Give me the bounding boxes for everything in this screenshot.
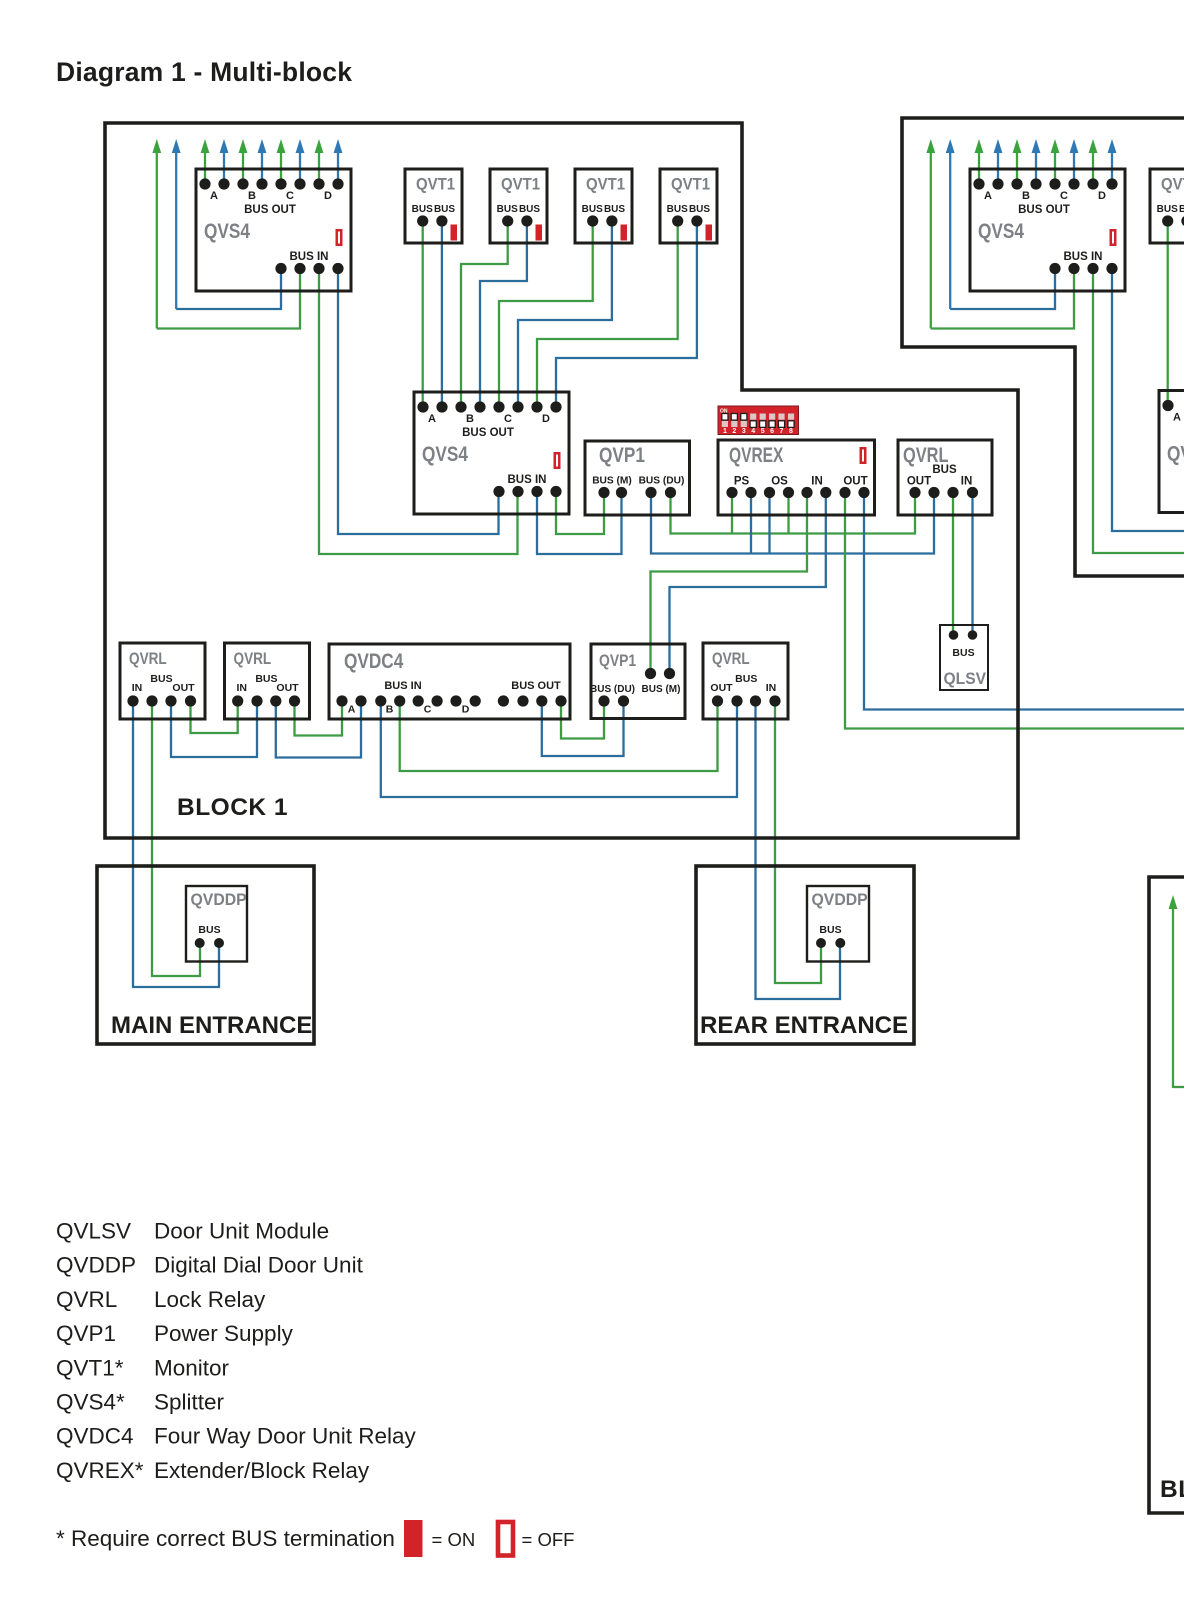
monitor QVT1 block2 #1 (partial): [1150, 169, 1184, 243]
QVRL block1 #1 pins: [127, 695, 196, 706]
QVS4 block2 top BUS IN pins: [1049, 263, 1117, 274]
svg-text:BUS (M): BUS (M): [642, 684, 681, 695]
svg-text:QVS4: QVS4: [978, 221, 1024, 244]
wire QVS4 mid BUS IN 4 to QVP1 BUS(M)1: [556, 493, 604, 535]
QVRL right pins OUT BUS IN: [909, 487, 978, 498]
riser arrow above QVS4 block1-top pin 7: [315, 139, 324, 184]
svg-text:QVP1: QVP1: [599, 652, 636, 671]
svg-text:BUS: BUS: [667, 204, 688, 215]
svg-text:IN: IN: [766, 682, 777, 694]
QVS4 block1 mid termination OFF: [555, 453, 560, 468]
wire QVREX OUT1 to block2 (exits right): [845, 493, 1184, 729]
wire QVT1#4 BUS1 to QVS4 mid D1: [537, 221, 678, 407]
lock relay QVRL block1 #1: [120, 643, 205, 719]
svg-text:B: B: [466, 413, 474, 425]
door unit QVDDP rear entrance: [807, 886, 869, 962]
wire QVS4 block1-top BUS IN 1 to blue riser: [176, 269, 281, 310]
riser arrow above QVS4 block2-top pin 1: [975, 139, 984, 184]
MAIN ENTRANCE box: [97, 866, 314, 1044]
QVS4 block1 top BUS IN pins: [275, 263, 343, 274]
wire QVRL#2 OUT to QVDC4 A1 green: [295, 701, 343, 736]
svg-text:QVS4: QVS4: [422, 444, 468, 467]
QLSV BUS pins: [949, 630, 978, 640]
svg-text:4: 4: [751, 428, 755, 435]
wire QVT1#3 BUS2 to QVS4 mid C2: [518, 221, 612, 407]
svg-text:BUS: BUS: [689, 204, 710, 215]
svg-text:D: D: [324, 190, 332, 202]
svg-text:BUS (M): BUS (M): [592, 476, 632, 487]
svg-text:BLOCK 1: BLOCK 1: [177, 794, 288, 821]
svg-text:BUS: BUS: [150, 673, 172, 685]
wire QVRL#2 BUS to QVDC4 A2 blue: [276, 701, 361, 758]
QVS4 block1 top termination OFF: [337, 230, 342, 245]
wire QVDC4 BUS OUT 3 to QVP1 BUS(DU)2 blue: [542, 701, 624, 756]
svg-text:A: A: [1173, 412, 1181, 424]
riser arrow above QVS4 block1-top pin 5: [277, 139, 286, 184]
wire QVT1#4 BUS2 to QVS4 mid D2: [556, 221, 697, 407]
wire QVT1#1 BUS2 to QVS4 mid A2: [441, 221, 443, 407]
riser arrow above QVS4 block2-top pin 4: [1032, 139, 1041, 184]
svg-text:BUS: BUS: [735, 673, 757, 685]
lock relay QVRL block1 #3: [703, 643, 788, 719]
svg-text:B: B: [1022, 190, 1030, 202]
svg-text:C: C: [424, 704, 432, 716]
QVREX pins PS OS IN OUT: [726, 487, 869, 498]
svg-text:OUT: OUT: [907, 476, 931, 488]
svg-text:IN: IN: [132, 682, 143, 694]
svg-text:BUS OUT: BUS OUT: [511, 680, 561, 692]
lock relay QVRL block1 #2: [225, 643, 310, 719]
svg-text:BUS IN: BUS IN: [1064, 251, 1103, 263]
wire QVRL right IN to QLSV pin2: [971, 493, 973, 636]
svg-text:5: 5: [761, 428, 765, 435]
wire QVREX IN2 to QVP1 bottom BUS(M)2: [670, 493, 826, 674]
svg-text:BUS (DU): BUS (DU): [639, 476, 685, 487]
wire QVS4 block2-top BUS IN 4 exits right: [1112, 269, 1184, 532]
monitor QVT1 block1 #1: [405, 169, 462, 243]
wire QVRL#1 to MAIN ENTRANCE QVDDP blue: [133, 701, 219, 987]
svg-text:Four Way Door Unit Relay: Four Way Door Unit Relay: [154, 1424, 416, 1449]
svg-text:BUS (DU): BUS (DU): [590, 684, 635, 695]
QVT1 block1 #1 BUS pins: [417, 215, 447, 226]
svg-text:QVT1: QVT1: [671, 176, 710, 194]
QVP1 bottom BUS(DU) pins: [598, 695, 629, 706]
svg-text:BUS: BUS: [604, 204, 625, 215]
QVS4 block2 top termination OFF: [1111, 230, 1116, 245]
wire QVS4 block1-top BUS IN 4 to QVS4 mid BUS IN 1: [338, 269, 499, 535]
svg-text:A: A: [984, 190, 992, 202]
legend ON symbol: [404, 1520, 423, 1557]
green bus wire QVP1 BUS(DU)2 - QVREX PS1/OS2 - QVRL OUT1: [671, 493, 916, 534]
svg-text:QVDDP: QVDDP: [812, 891, 868, 910]
svg-text:QVRL: QVRL: [712, 650, 750, 669]
QVREX termination OFF: [861, 448, 866, 463]
riser arrow above QVS4 block2-top pin 7: [1089, 139, 1098, 184]
svg-text:MAIN ENTRANCE: MAIN ENTRANCE: [111, 1012, 312, 1039]
door unit QVDDP main entrance: [186, 886, 247, 962]
svg-text:= OFF: = OFF: [522, 1529, 575, 1550]
svg-text:QVLSV: QVLSV: [56, 1219, 131, 1244]
extender/block relay QVREX block1: [718, 440, 875, 515]
power supply QVP1 block1 top: [585, 441, 690, 515]
BLOCK (bottom right, partial) outline: [1149, 877, 1184, 1513]
svg-text:QLSV: QLSV: [944, 669, 987, 688]
QVT1 block1 #1 termination ON: [451, 225, 458, 241]
riser arrow above QVS4 block1-top pin 3: [239, 139, 248, 184]
tall riser arrow green block2 left: [926, 139, 935, 329]
riser arrow above QVS4 block2-top pin 2: [994, 139, 1003, 184]
svg-text:C: C: [1060, 190, 1068, 202]
svg-text:6: 6: [770, 428, 774, 435]
svg-text:Splitter: Splitter: [154, 1390, 225, 1415]
svg-text:D: D: [542, 413, 550, 425]
wire QVS4 mid BUS IN 3 to QVP1 BUS(M)2: [537, 493, 622, 555]
QVT1 block1 #2 termination ON: [536, 225, 543, 241]
svg-text:* Require correct BUS terminat: * Require correct BUS termination: [56, 1526, 395, 1551]
QVREX DIP switch block: [718, 406, 799, 435]
blue bus wire QVP1 BUS(DU)1 - QVREX PS2/OS1 - QVRL BUS2: [651, 493, 934, 554]
svg-text:Digital Dial Door Unit: Digital Dial Door Unit: [154, 1253, 364, 1278]
svg-text:BUS: BUS: [255, 673, 277, 685]
QVDDP rear BUS pins: [816, 938, 845, 948]
svg-text:QVS4: QVS4: [1167, 443, 1184, 466]
svg-text:OS: OS: [771, 476, 788, 488]
wire QVDC4 BUS OUT 4 to QVP1 BUS(DU)1 green: [561, 701, 604, 739]
monitor QVT1 block1 #4: [660, 169, 717, 243]
svg-text:B: B: [248, 190, 256, 202]
wire QVT1 block2 BUS1 to QVS4 block2-mid A1: [1167, 221, 1169, 406]
svg-text:BUS: BUS: [434, 204, 455, 215]
svg-text:BUS: BUS: [582, 204, 603, 215]
QVP1 top pins BUS(M) BUS(DU): [598, 487, 676, 498]
svg-text:QVREX*: QVREX*: [56, 1458, 144, 1483]
svg-text:A: A: [348, 704, 356, 716]
svg-text:BUS OUT: BUS OUT: [462, 427, 514, 439]
BLOCK 2 outline (partial): [902, 118, 1184, 576]
svg-text:QVT1: QVT1: [1161, 176, 1184, 194]
wire QVRL#3 to REAR ENTRANCE QVDDP blue: [756, 701, 841, 999]
svg-text:Door Unit Module: Door Unit Module: [154, 1219, 329, 1244]
svg-text:8: 8: [789, 428, 793, 435]
svg-text:QVDC4: QVDC4: [344, 651, 404, 674]
QVT1 block1 #4 BUS pins: [672, 215, 702, 226]
svg-text:Diagram 1 - Multi-block: Diagram 1 - Multi-block: [56, 57, 352, 87]
svg-text:Power Supply: Power Supply: [154, 1321, 294, 1346]
svg-text:QVS4*: QVS4*: [56, 1390, 125, 1415]
svg-text:QVRL: QVRL: [129, 650, 167, 669]
tall riser arrow green block1 left: [152, 139, 161, 329]
power supply QVP1 block1 bottom: [591, 644, 685, 719]
svg-text:7: 7: [780, 428, 784, 435]
svg-text:BUS IN: BUS IN: [508, 474, 547, 486]
svg-text:BUS OUT: BUS OUT: [1018, 204, 1070, 216]
svg-text:BUS IN: BUS IN: [384, 680, 421, 692]
svg-text:2: 2: [732, 428, 736, 435]
wire QVT1#2 BUS2 to QVS4 mid B2: [480, 221, 527, 407]
wire bottom-right block exits right: [1173, 1086, 1184, 1088]
svg-text:BUS: BUS: [1157, 204, 1178, 215]
wire QVREX OUT2 to block2 (exits right): [864, 493, 1184, 710]
svg-text:OUT: OUT: [710, 682, 733, 694]
svg-text:BUS: BUS: [497, 204, 518, 215]
svg-text:BUS: BUS: [1179, 204, 1184, 215]
monitor QVT1 block1 #2: [490, 169, 547, 243]
QVS4 block1 mid BUS OUT pins A1-D2: [417, 401, 561, 412]
riser arrow above QVS4 block2-top pin 6: [1070, 139, 1079, 184]
riser arrow above QVS4 block1-top pin 8: [334, 139, 343, 184]
wire QVDC4 B2 to QVRL#3 OUT green: [400, 701, 718, 771]
QVS4 block2 top BUS OUT pins A1-D2: [973, 178, 1117, 189]
wire QVT1#2 BUS1 to QVS4 mid B1: [461, 221, 508, 407]
QVS4 block1 top BUS OUT pins A1-D2: [199, 178, 343, 189]
riser arrow above QVS4 block1-top pin 4: [258, 139, 267, 184]
svg-text:QVDDP: QVDDP: [191, 891, 247, 910]
wire QVS4 block1-top BUS IN 3 to QVS4 mid BUS IN 2: [319, 269, 518, 555]
monitor QVT1 block1 #3: [575, 169, 632, 243]
wire QVT1#3 BUS1 to QVS4 mid C1: [499, 221, 593, 407]
svg-text:QVT1: QVT1: [501, 176, 540, 194]
wire QVS4 block1-top BUS IN 2 to green riser: [157, 269, 300, 329]
wire QVS4 block2-top BUS IN 2 to green riser: [931, 269, 1074, 329]
svg-text:BUS OUT: BUS OUT: [244, 204, 296, 216]
svg-text:QVRL: QVRL: [56, 1287, 117, 1312]
splitter QVS4 block2 mid (partial): [1159, 391, 1184, 513]
QVRL block1 #3 pins: [712, 695, 781, 706]
svg-text:Extender/Block Relay: Extender/Block Relay: [154, 1458, 370, 1483]
door unit module QLSV: [940, 625, 988, 690]
QVDC4 pins BUS IN A-D and BUS OUT: [336, 695, 566, 706]
svg-text:Monitor: Monitor: [154, 1355, 230, 1380]
wire QVRL#1 BUS to QVRL#2 BUS blue: [171, 701, 257, 757]
svg-text:= ON: = ON: [432, 1529, 476, 1550]
QVT1 block1 #3 termination ON: [621, 225, 628, 241]
BLOCK 1 outline: [105, 123, 1018, 838]
QVT1 block1 #4 termination ON: [706, 225, 713, 241]
QVP1 bottom BUS(M) pins: [645, 668, 675, 679]
wire QVS4 block2-top BUS IN 1 to blue riser: [950, 269, 1055, 310]
QVT1 block1 #3 BUS pins: [587, 215, 617, 226]
wire QVRL#1 to MAIN ENTRANCE QVDDP green: [152, 701, 200, 976]
svg-text:QVT1: QVT1: [416, 176, 455, 194]
wire QVT1#1 BUS1 to QVS4 mid A1: [422, 221, 424, 407]
riser arrow above QVS4 block2-top pin 3: [1013, 139, 1022, 184]
riser arrow above QVS4 block1-top pin 2: [220, 139, 229, 184]
svg-text:IN: IN: [961, 476, 973, 488]
riser arrow above QVS4 block2-top pin 5: [1051, 139, 1060, 184]
riser arrow green bottom-right block: [1169, 895, 1178, 1088]
wire QVDC4 B1 to QVRL#3 BUS blue: [381, 701, 737, 797]
riser arrow above QVS4 block1-top pin 6: [296, 139, 305, 184]
svg-text:A: A: [428, 413, 436, 425]
wire QVREX IN1 to QVP1 bottom BUS(M)1: [651, 493, 808, 674]
svg-text:BUS: BUS: [952, 647, 974, 659]
svg-text:BUS: BUS: [198, 924, 220, 936]
svg-text:BUS: BUS: [519, 204, 540, 215]
splitter QVS4 block1 top: [196, 169, 351, 291]
svg-text:OUT: OUT: [172, 682, 195, 694]
riser arrow above QVS4 block1-top pin 1: [201, 139, 210, 184]
svg-text:D: D: [1098, 190, 1106, 202]
QVT1 block1 #2 BUS pins: [502, 215, 532, 226]
svg-text:QVP1: QVP1: [599, 445, 645, 468]
svg-text:3: 3: [742, 428, 746, 435]
QVDDP main BUS pins: [195, 938, 224, 948]
REAR ENTRANCE box: [696, 866, 914, 1044]
QVS4 block2-mid pin A1: [1162, 400, 1173, 411]
riser arrow above QVS4 block2-top pin 8: [1108, 139, 1117, 184]
svg-text:QVRL: QVRL: [903, 443, 949, 466]
svg-text:OUT: OUT: [276, 682, 299, 694]
tall riser arrow blue block1 left: [172, 139, 181, 309]
wire QVRL#3 to REAR ENTRANCE QVDDP green: [775, 701, 821, 983]
tall riser arrow blue block2 left: [946, 139, 955, 309]
svg-text:OUT: OUT: [843, 476, 867, 488]
svg-text:PS: PS: [734, 476, 750, 488]
svg-text:C: C: [286, 190, 294, 202]
svg-text:BUS: BUS: [412, 204, 433, 215]
svg-text:IN: IN: [236, 682, 247, 694]
svg-text:REAR ENTRANCE: REAR ENTRANCE: [700, 1012, 908, 1039]
svg-text:IN: IN: [811, 476, 823, 488]
svg-text:BUS: BUS: [932, 464, 957, 476]
lock relay QVRL block1 right: [898, 440, 992, 515]
svg-text:C: C: [504, 413, 512, 425]
svg-text:QVP1: QVP1: [56, 1321, 116, 1346]
wire QVRL#1 OUT to QVRL#2 IN green: [191, 701, 238, 733]
svg-text:QVDC4: QVDC4: [56, 1424, 134, 1449]
svg-text:BUS IN: BUS IN: [290, 251, 329, 263]
wire QVRL right BUS to QLSV pin1: [952, 493, 954, 636]
splitter QVS4 block2 top: [970, 169, 1125, 291]
legend OFF symbol: [498, 1522, 513, 1556]
svg-text:QVDDP: QVDDP: [56, 1253, 136, 1278]
svg-text:Lock Relay: Lock Relay: [154, 1287, 266, 1312]
svg-text:BUS: BUS: [819, 924, 841, 936]
svg-text:QVRL: QVRL: [234, 650, 272, 669]
svg-text:QVS4: QVS4: [204, 221, 250, 244]
svg-text:D: D: [462, 704, 470, 716]
splitter QVS4 block1 mid: [414, 392, 569, 514]
svg-text:B: B: [386, 704, 394, 716]
wire QVS4 block2-top BUS IN 3 exits right: [1093, 269, 1184, 554]
QVT1 block2 #1 (partial) BUS pins: [1162, 215, 1184, 226]
svg-text:QVT1: QVT1: [586, 176, 625, 194]
svg-text:QVREX: QVREX: [729, 443, 784, 467]
svg-text:BLOCK: BLOCK: [1160, 1476, 1184, 1503]
svg-text:A: A: [210, 190, 218, 202]
QVRL block1 #2 pins: [232, 695, 300, 706]
four way door unit relay QVDC4: [329, 644, 570, 719]
svg-text:1: 1: [723, 428, 727, 435]
QVS4 block1 mid BUS IN pins: [493, 486, 561, 497]
svg-text:QVT1*: QVT1*: [56, 1355, 124, 1380]
